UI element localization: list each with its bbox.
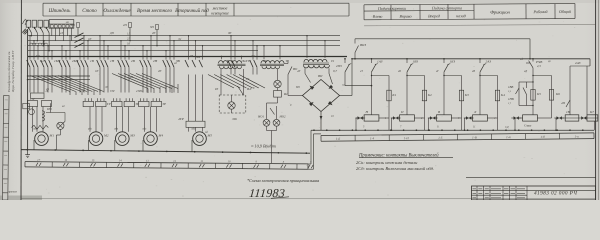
main switch handle [22, 29, 28, 35]
sheet frame bottom border [21, 198, 596, 200]
plug contact П [393, 116, 396, 120]
svg-text:2АЗ: 2АЗ [486, 60, 492, 64]
feed loop top wire [355, 38, 530, 40]
svg-text:1-4: 1-4 [370, 136, 375, 140]
svg-text:ВКЗ: ВКЗ [360, 43, 366, 47]
relay branch В [443, 59, 445, 63]
header table right section [364, 3, 596, 25]
svg-text:СД: СД [505, 126, 509, 129]
coil leads Л [487, 117, 497, 119]
coil leads П [414, 117, 424, 119]
svg-text:К3: К3 [464, 93, 469, 97]
svg-text:41983 02 000 РЧ: 41983 02 000 РЧ [534, 190, 577, 196]
drop to strip В [428, 118, 430, 130]
svg-text:ЛМ1: ЛМ1 [231, 118, 238, 121]
svg-text:ТР: ТР [162, 102, 166, 106]
bridge rectifier VD [303, 80, 340, 112]
ground symbol [27, 150, 29, 155]
contact group M5 feed [188, 36, 190, 60]
svg-text:4Б: 4Б [398, 70, 401, 73]
aux gauge circle [29, 109, 35, 115]
svg-text:Общий: Общий [559, 9, 571, 14]
plug contact Смаз [514, 116, 517, 120]
svg-text:М2: М2 [103, 134, 109, 138]
bridge output down [320, 112, 322, 131]
svg-text:РЛ: РЛ [214, 88, 218, 91]
svg-text:ВО: ВО [293, 67, 298, 71]
relay branch Л [479, 59, 481, 63]
coil leads Н [379, 117, 389, 119]
svg-text:Т4: Т4 [248, 59, 252, 63]
svg-text:2ПЗ: 2ПЗ [336, 64, 342, 68]
svg-text:М4: М4 [158, 134, 164, 138]
sheet frame right border [595, 0, 597, 200]
motor return bus [21, 150, 310, 154]
svg-text:1В: 1В [90, 59, 94, 63]
svg-text:ВЛ: ВЛ [247, 87, 252, 91]
current transformer squiggles [30, 43, 36, 45]
aux solenoid winding [42, 111, 45, 121]
bridge diodes [329, 85, 334, 89]
coil 1В [565, 115, 579, 121]
svg-text:Л2: Л2 [177, 38, 182, 41]
plug contact Л [466, 116, 469, 120]
switch 4П on right rung [566, 100, 570, 107]
tap to resistor К2 [407, 75, 425, 77]
bus line L3 [28, 45, 340, 47]
svg-text:Журн. Госприбор. Генер. А.М.УТ: Журн. Госприбор. Генер. А.М.УТ [11, 50, 15, 93]
svg-text:К7: К7 [589, 110, 594, 114]
crossover diagonal wires group C [208, 75, 234, 89]
thermal relay boxes row [83, 101, 93, 106]
resistor К5 [531, 90, 535, 101]
svg-text:М1: М1 [49, 134, 55, 138]
svg-text:КЛ: КЛ [35, 55, 40, 58]
svg-text:ЗВ: ЗВ [190, 55, 193, 58]
contactor contact groups [29, 36, 31, 60]
svg-text:Охлаждение: Охлаждение [103, 9, 131, 14]
svg-text:Фрикцион: Фрикцион [490, 10, 510, 15]
svg-text:4Т: 4Т [360, 70, 363, 73]
return wire junction dots [313, 129, 315, 131]
transformer T2 [306, 36, 308, 58]
svg-text:Смаз: Смаз [524, 124, 532, 128]
svg-text:Т1: Т1 [286, 59, 290, 63]
transformer T4 [221, 57, 223, 60]
svg-text:4Г: 4Г [436, 70, 439, 73]
bus line L2 [28, 40, 340, 42]
feed loop right drop [529, 39, 531, 59]
pump lamp [57, 122, 64, 129]
bridge left branch switch ВО [288, 95, 303, 97]
svg-text:Вперед: Вперед [428, 13, 440, 18]
svg-text:4В: 4В [472, 70, 475, 73]
motor leads [89, 107, 91, 132]
fuse drop wires [30, 33, 32, 36]
svg-text:Рабочий: Рабочий [532, 9, 547, 14]
svg-text:1-о: 1-о [575, 134, 580, 138]
svg-text:2Л: 2Л [60, 32, 63, 35]
drop to strip П [391, 118, 393, 130]
switch ВС [270, 108, 275, 115]
svg-text:1-Н: 1-Н [404, 136, 410, 140]
svg-text:1В: 1В [566, 110, 570, 114]
resistor К3 [459, 90, 463, 101]
control fuse stub 1П [77, 28, 79, 36]
svg-text:4ТР: 4ТР [178, 117, 184, 121]
svg-text:Стопо: Стопо [82, 9, 97, 14]
bus line L4 main [28, 56, 347, 58]
svg-text:К5: К5 [536, 92, 541, 96]
control fuse stub 2П [129, 28, 131, 41]
control return wire [311, 129, 594, 131]
parallel contact box 1ВВ 1НВ [519, 81, 533, 83]
svg-text:1В: 1В [67, 76, 70, 79]
svg-text:4Г: 4Г [297, 69, 301, 73]
svg-text:Подача суппорта: Подача суппорта [431, 5, 462, 10]
bridge right feed to rail [340, 95, 353, 97]
title block scribbles [473, 188, 477, 190]
crossover diagonal wires group A [30, 76, 70, 92]
terminal assembly box [49, 20, 74, 29]
svg-text:2В: 2В [130, 76, 133, 79]
resistor под lamp [274, 91, 282, 98]
svg-text:М3: М3 [129, 134, 135, 138]
drops right pair [555, 118, 557, 130]
resistor К4 [495, 90, 499, 101]
coil line right pair [556, 117, 598, 119]
lamp ЛС [277, 69, 279, 80]
svg-text:Н: Н [365, 110, 369, 114]
signal lamps НО1 НО2 [267, 102, 278, 104]
svg-text:4ТР: 4ТР [136, 90, 141, 93]
inner frame line under right header [364, 24, 596, 25]
svg-text:4Б: 4Б [46, 88, 49, 91]
relay branch П [406, 59, 408, 63]
svg-text:1-т: 1-т [506, 135, 512, 139]
svg-text:ЗТР: ЗТР [110, 90, 115, 93]
coil Н [364, 115, 379, 121]
svg-text:Влево: Влево [373, 14, 383, 19]
coil К7 [587, 115, 598, 121]
svg-text:2В: 2В [131, 59, 135, 63]
svg-text:В: В [438, 110, 440, 114]
coil leads В [451, 117, 461, 119]
svg-text:1ТР: 1ТР [30, 98, 35, 101]
drop to strip Л [464, 118, 466, 130]
svg-text:1Н: 1Н [110, 59, 115, 63]
svg-text:1Л: 1Л [127, 33, 130, 36]
svg-text:ВП: ВП [318, 74, 323, 78]
svg-text:ЛО: ЛО [250, 55, 255, 58]
svg-text:1НВ: 1НВ [508, 97, 514, 101]
svg-text:Т2: Т2 [331, 59, 335, 63]
sub-bus pair reversing group [28, 75, 90, 77]
bus line L1 [28, 35, 340, 37]
svg-text:4Д: 4Д [524, 70, 527, 73]
svg-text:К2: К2 [427, 93, 432, 97]
svg-text:2Ск: контроль отжима детали: 2Ск: контроль отжима детали [356, 160, 418, 165]
crossover verticals [69, 92, 71, 96]
svg-text:0Л: 0Л [127, 43, 130, 46]
plug contact Ф2 [581, 116, 584, 120]
plug contact Н [358, 116, 361, 120]
svg-text:1-Б: 1-Б [336, 137, 341, 141]
M1 relay boxes [31, 93, 45, 98]
coil Л [473, 115, 488, 121]
svg-text:ТР: ТР [107, 102, 111, 106]
relay branch Смаз [532, 59, 534, 62]
drop to strip Н [355, 118, 357, 130]
local light dashed box [220, 69, 222, 95]
svg-text:НО2: НО2 [279, 115, 286, 119]
aux wire loop [46, 113, 65, 122]
svg-text:Время местного: Время местного [137, 9, 173, 14]
resistor К2 [422, 90, 426, 101]
svg-text:2ТР: 2ТР [80, 90, 85, 93]
svg-text:1ВЗ: 1ВЗ [413, 60, 419, 64]
title block [472, 186, 596, 200]
band step connector [308, 163, 311, 165]
svg-text:Подача каретки: Подача каретки [377, 6, 406, 11]
svg-text:К6: К6 [555, 92, 560, 96]
svg-text:2АЗ: 2АЗ [575, 61, 581, 65]
svg-text:1-В: 1-В [472, 135, 477, 139]
transformer T1 [263, 46, 265, 60]
svg-text:1-8: 1-8 [541, 135, 546, 139]
right terminal strip [321, 133, 594, 141]
clutch loop right [589, 59, 591, 66]
svg-text:*Схема электрическая принцип: *Схема электрическая принципиальная [247, 178, 319, 183]
secondary taps [304, 68, 306, 73]
svg-text:назад: назад [456, 13, 466, 18]
svg-text:П: П [400, 110, 404, 114]
fuse switch units ПР1-ПР4 [26, 20, 30, 27]
main left feeder vertical [27, 29, 29, 151]
aux zigzag resistor [32, 125, 49, 129]
plug contact В [430, 116, 433, 120]
svg-text:111983: 111983 [249, 186, 286, 200]
coil line Смаз [515, 117, 523, 119]
svg-text:ТТ: ТТ [246, 78, 249, 81]
coil Смаз [523, 115, 538, 121]
svg-text:К4: К4 [500, 93, 505, 97]
motor М2 [89, 132, 103, 146]
aux relay box left [23, 103, 30, 108]
lamp ЛМ [228, 102, 235, 109]
svg-text:Шпиндель: Шпиндель [48, 9, 72, 14]
coil П [400, 115, 415, 121]
svg-text:R1: R1 [283, 92, 288, 96]
svg-text:Вправо: Вправо [399, 14, 411, 19]
title block top rule [466, 177, 596, 179]
sheet frame left border [20, 0, 22, 200]
svg-text:сд: сд [520, 57, 523, 61]
crossover diagonal wires group B [112, 74, 148, 89]
motor М1 [35, 132, 49, 146]
svg-text:Вторичный под: Вторичный под [175, 8, 209, 14]
svg-text:2Л: 2Л [127, 38, 130, 41]
svg-text:ПО: ПО [46, 107, 52, 111]
svg-text:М5: М5 [207, 134, 213, 138]
motor М5 [193, 132, 207, 146]
svg-text:ЛЗ: ЛЗ [104, 86, 109, 89]
svg-text:2Н: 2Н [153, 59, 158, 63]
resistor К1 [387, 90, 391, 101]
svg-text:ЗН: ЗН [196, 55, 201, 59]
svg-text:1-5: 1-5 [438, 136, 443, 140]
bus series switch blades [75, 33, 84, 38]
relay branch Н [371, 59, 373, 63]
control rail [352, 58, 590, 60]
left margin perforation strip [2, 95, 9, 200]
tap to resistor К3 [444, 75, 462, 77]
parallel contact 2ПЗ [344, 59, 346, 63]
return bus junction dots [26, 149, 28, 151]
drop Смаз [514, 118, 516, 130]
coil В [437, 115, 452, 121]
svg-text:1БЗ: 1БЗ [450, 60, 456, 64]
thermal relay box M5 [186, 121, 205, 127]
svg-text:НО1: НО1 [257, 115, 264, 119]
tap to resistor К1 [372, 75, 390, 77]
tap to resistor К4 [480, 75, 498, 77]
input hook glyphs [23, 19, 29, 25]
svg-text:1ВВ: 1ВВ [508, 85, 513, 89]
control fuse stub 3П [156, 30, 158, 46]
svg-text:лв: лв [65, 20, 69, 24]
left terminal strip [25, 159, 313, 170]
svg-text:освещение: освещение [211, 11, 229, 16]
svg-text:К1: К1 [391, 93, 396, 97]
handwritten number 111983 [249, 186, 286, 200]
plug contact Ф1 [557, 116, 560, 120]
motor М3 [116, 132, 130, 146]
assembly drop wires [51, 28, 53, 36]
tap resistor К6 [533, 75, 552, 77]
motor М4 [144, 132, 158, 146]
header table left section [43, 2, 349, 4]
switch ВЛ [238, 86, 243, 94]
svg-text:приним: приним [8, 191, 17, 194]
bus line N [28, 50, 258, 52]
svg-text:1АЗ: 1АЗ [377, 60, 383, 64]
svg-text:4П: 4П [561, 101, 566, 105]
feed loop switch ВКЗ [354, 53, 356, 59]
